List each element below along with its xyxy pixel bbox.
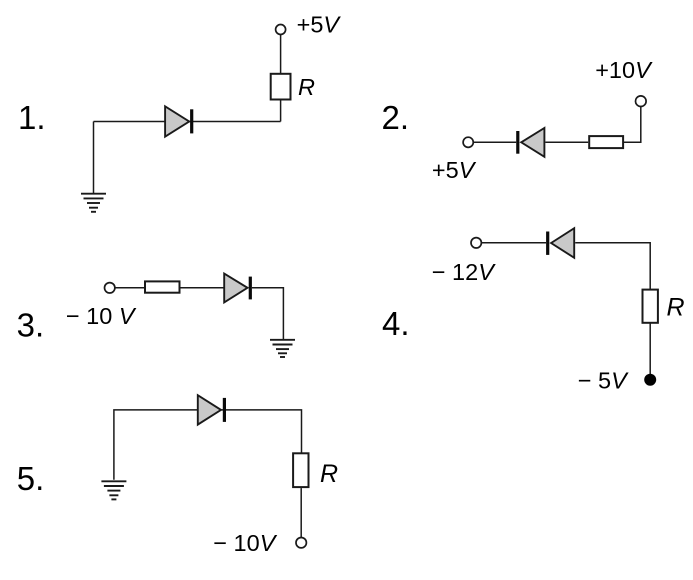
terminal node +10V (circuit 2) — [636, 96, 647, 107]
wire from resistor to diode (circuit 2) — [545, 141, 588, 143]
svg-text:+5V: +5V — [297, 12, 342, 38]
diode D3 (anode left, cathode right) — [224, 274, 250, 303]
svg-text:− 5V: − 5V — [578, 368, 629, 394]
wire from diode cathode to ground branch (circuit 3) — [252, 288, 283, 340]
diode D1 (anode left, cathode right) — [165, 106, 192, 136]
resistor (circuit 2, horizontal) — [589, 136, 623, 148]
wire from +10V terminal down to resistor level (circuit 2) — [624, 107, 641, 143]
wire from resistor bottom to -10V terminal (circuit 5) — [300, 488, 302, 537]
terminal node +5V (circuit 1) — [276, 25, 286, 35]
svg-text:− 10V: − 10V — [213, 530, 277, 556]
wire from resistor R bottom to node (circuit 1) — [280, 100, 282, 122]
svg-text:+10V: +10V — [595, 57, 653, 83]
svg-text:− 12V: − 12V — [432, 259, 496, 285]
svg-text:5.: 5. — [17, 460, 45, 497]
diode D5 (anode left, cathode right) — [198, 395, 225, 424]
terminal node -10V (circuit 5) — [296, 538, 306, 548]
terminal node +5V (circuit 2) — [463, 137, 473, 147]
svg-text:R: R — [298, 74, 315, 100]
diode D4 (cathode left, anode right) — [548, 228, 575, 258]
ground symbol (circuit 3) — [270, 340, 295, 357]
wire from terminal to diode cathode (circuit 4) — [481, 242, 546, 244]
svg-text:1.: 1. — [18, 99, 46, 136]
ground symbol (circuit 5) — [101, 481, 126, 499]
ground symbol (circuit 1) — [81, 194, 106, 212]
svg-text:2.: 2. — [382, 99, 410, 136]
wire from +5V terminal to resistor R top (circuit 1) — [280, 34, 282, 74]
wire from terminal to resistor (circuit 3) — [115, 287, 145, 289]
resistor R (circuit 1) — [271, 74, 291, 100]
terminal node -12V (circuit 4) — [471, 238, 481, 248]
resistor (circuit 3, horizontal) — [145, 281, 180, 292]
resistor R (circuit 4) — [643, 290, 658, 323]
svg-text:− 10 V: − 10 V — [66, 303, 137, 329]
diode D2 (cathode left, anode right) — [518, 128, 545, 157]
wire from resistor bottom to -5V node (circuit 4) — [649, 323, 651, 379]
svg-text:R: R — [320, 460, 338, 488]
svg-text:4.: 4. — [382, 305, 410, 342]
svg-text:R: R — [667, 294, 685, 322]
node -5V filled junction dot (circuit 4) — [644, 374, 656, 386]
wire from diode anode to resistor branch (circuit 4) — [575, 243, 650, 289]
wire from +5V terminal to diode cathode (circuit 2) — [473, 141, 516, 143]
terminal node -10V (circuit 3) — [105, 283, 115, 293]
svg-text:3.: 3. — [17, 307, 45, 344]
wire from resistor to diode anode (circuit 3) — [180, 287, 224, 289]
wire from node down to ground (circuit 1) — [93, 122, 95, 194]
wire horizontal from diode cathode to resistor branch (circuit 1) — [94, 121, 281, 123]
wire top horizontal from ground branch to resistor branch (circuit 5) — [114, 410, 302, 480]
svg-text:+5V: +5V — [432, 157, 477, 183]
resistor R (circuit 5) — [293, 453, 308, 487]
